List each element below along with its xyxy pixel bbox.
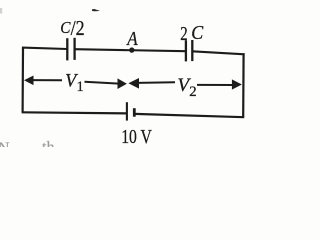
wire: top-middle segment from C1 to capacitor C2 (75, 49, 186, 51)
stray ink dash artifact top (92, 9, 100, 11)
V2 measurement arrow (double-headed) (128, 78, 242, 90)
faint cropped text bottom-left (0, 139, 54, 157)
wire: top-right segment from C2 to corner (192, 51, 244, 54)
svg-text:1: 1 (77, 79, 84, 95)
svg-text:2: 2 (180, 24, 187, 45)
node A junction dot (129, 47, 134, 52)
V1 measurement arrow (double-headed) (24, 76, 127, 90)
svg-text:C: C (60, 18, 71, 37)
wire: right vertical wire (242, 53, 245, 117)
capacitor C2 (2C) (186, 40, 192, 61)
wire: left vertical wire (22, 48, 25, 113)
svg-text:/2: /2 (71, 18, 85, 40)
wire: bottom-right segment from battery (134, 114, 244, 117)
svg-text:A: A (126, 28, 139, 50)
wire: bottom-left segment to battery (22, 112, 127, 113)
faint left-edge mark (0, 8, 2, 14)
wire: top-left segment to capacitor C1 (22, 48, 67, 49)
svg-text:2: 2 (189, 84, 196, 100)
svg-text:C: C (191, 23, 204, 44)
battery B1: long plate (126, 102, 128, 120)
svg-text:th: th (42, 139, 54, 147)
svg-text:10 V: 10 V (121, 126, 152, 147)
battery B1: short plate (133, 108, 136, 117)
capacitor C1 (C/2) (67, 38, 74, 61)
svg-text:N: N (0, 140, 10, 147)
